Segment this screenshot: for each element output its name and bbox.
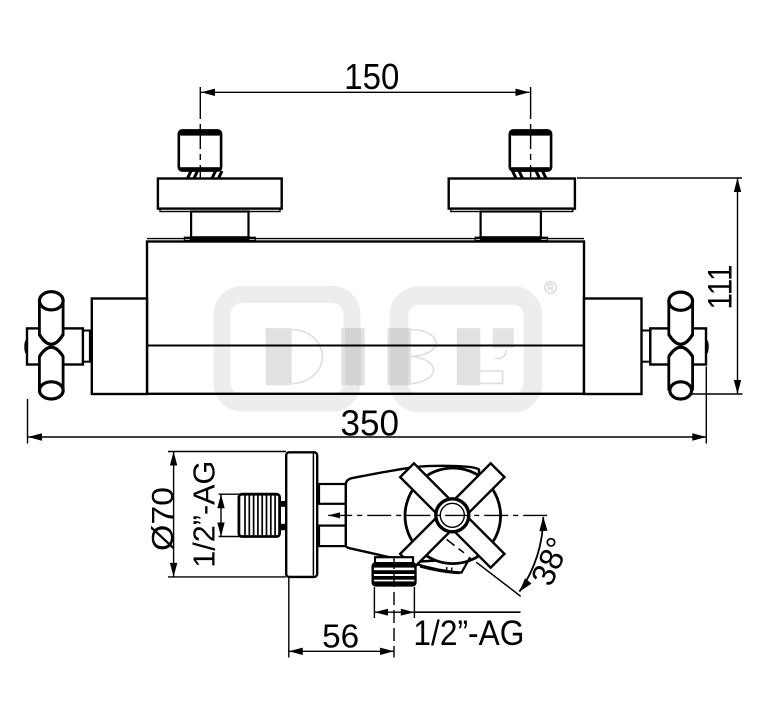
left wall flange lip — [160, 209, 280, 212]
inlet thread top arrow — [217, 494, 224, 508]
spout beak outer curve — [414, 557, 471, 572]
angle 38 top arrow — [539, 517, 547, 532]
watermark letter L bar — [457, 328, 481, 385]
svg-text:150: 150 — [344, 56, 399, 97]
inlet thread bottom arrow — [217, 523, 224, 537]
outlet thread dim left extension — [373, 587, 375, 618]
watermark overlap B-ring2 — [390, 328, 409, 385]
left connector ring — [83, 331, 90, 362]
left handle lower cap arc — [39, 347, 63, 356]
centerline left arrowhead — [328, 512, 340, 518]
dim 350 line — [28, 436, 706, 438]
watermark letter B bowls — [411, 330, 436, 384]
watermark registered mark — [545, 282, 557, 294]
right housing — [584, 299, 642, 395]
svg-text:1/2”-AG: 1/2”-AG — [187, 461, 222, 568]
dim 150 left extension centerline — [199, 87, 201, 178]
svg-text:111: 111 — [702, 265, 740, 310]
dim 111 line — [737, 178, 739, 394]
svg-text:56: 56 — [322, 617, 359, 654]
watermark overlap I-ring1 — [345, 328, 361, 385]
watermark letter D bar — [266, 328, 292, 385]
outlet threaded stack — [373, 563, 416, 585]
outlet thread dim line — [374, 611, 414, 613]
watermark logo DIBL — [222, 282, 556, 403]
left washer — [184, 237, 255, 240]
dia70 dim line — [173, 452, 175, 577]
dia70 bottom extension line — [168, 576, 286, 578]
right handle bottom cylinder — [669, 356, 693, 390]
dim 56 right arrow — [380, 648, 394, 655]
cross handle arm NE-SW — [400, 463, 504, 567]
watermark apostrophe — [495, 350, 506, 359]
svg-text:350: 350 — [341, 402, 400, 443]
right handle cylinder white fill — [669, 301, 693, 390]
left handle cylinder white fill — [39, 301, 63, 391]
inlet nipple thread lines — [245, 496, 275, 536]
dim 350 left extension line — [27, 399, 29, 444]
body mid line — [147, 345, 584, 347]
valve horizontal centerline — [328, 514, 548, 516]
inlet thread dim ticks — [219, 493, 240, 495]
left plate bump — [25, 340, 27, 354]
dim 111 top extension line — [577, 177, 742, 179]
left handle bottom cylinder — [39, 356, 63, 390]
wall flange plate — [286, 452, 317, 577]
connector middle edge — [345, 504, 347, 526]
main body — [147, 242, 584, 394]
dim 56 left extension — [288, 578, 290, 658]
angle 38 arc — [519, 517, 543, 592]
svg-text:1/2”-AG: 1/2”-AG — [413, 613, 524, 653]
outlet thread right arrow — [401, 609, 415, 616]
outlet thread dim right extension — [413, 587, 415, 618]
dia70 top arrow — [170, 452, 177, 466]
spout axis solid segment — [476, 562, 521, 596]
right union nut — [510, 130, 551, 171]
watermark letter D bowl — [292, 330, 323, 384]
valve body — [346, 466, 479, 562]
connector lower block — [319, 526, 346, 547]
right spacer — [481, 212, 541, 238]
hub outer ring — [436, 499, 469, 532]
dim 150 left arrow — [201, 89, 215, 96]
connector upper block — [319, 484, 346, 504]
left spacer — [191, 212, 248, 238]
watermark ring 1 — [222, 295, 352, 404]
dim 111 top arrow — [734, 178, 741, 192]
left washer dark fill — [190, 237, 250, 241]
dim 56 line — [289, 650, 394, 652]
dim 350 right arrow — [692, 433, 706, 440]
left handle upper cap arc — [39, 335, 63, 345]
right end plate — [650, 328, 706, 364]
left end plate — [27, 328, 83, 364]
outlet thread left arrow — [374, 609, 388, 616]
inlet thread dim line — [220, 494, 222, 536]
outlet collar — [375, 557, 413, 563]
watermark ring 2 — [399, 296, 533, 404]
watermark letter L top block — [493, 328, 514, 348]
handle base circle — [405, 468, 501, 564]
right handle top cylinder — [669, 301, 693, 335]
svg-text:Ø70: Ø70 — [145, 487, 180, 551]
right wall flange — [449, 179, 575, 209]
inlet nipple tabs — [280, 501, 287, 507]
dim 56 left arrow — [289, 648, 303, 655]
spout beak inner curve — [420, 567, 460, 574]
right handle lower cap arc — [669, 347, 693, 356]
dia70 top extension line — [168, 451, 286, 453]
dim 111 bottom arrow — [734, 380, 741, 394]
right handle upper cap arc — [669, 335, 693, 345]
body top lip line — [147, 238, 584, 240]
right washer dark fill — [480, 237, 541, 241]
right nut hex feet — [513, 171, 547, 178]
inlet threaded nipple — [239, 494, 280, 536]
left handle top cylinder — [39, 301, 63, 336]
outlet thread leader line — [414, 611, 520, 613]
left housing — [92, 299, 147, 395]
watermark letter I bar — [341, 328, 365, 385]
watermark letter B bar — [387, 328, 411, 385]
dim 150 right extension centerline — [530, 87, 532, 178]
angle 38 bottom arrow — [519, 578, 531, 592]
hub inner ring — [440, 503, 464, 527]
right washer — [475, 237, 547, 240]
outlet vertical centerline — [393, 556, 395, 658]
left wall flange — [158, 179, 282, 209]
dia70 bottom arrow — [170, 563, 177, 577]
dim 150 line — [201, 91, 530, 93]
watermark letter L foot — [480, 371, 502, 383]
dim 111 bottom extension line — [691, 393, 743, 395]
spout beak tick marks — [446, 567, 447, 573]
dim 150 right arrow — [516, 89, 530, 96]
spout axis dash segments — [459, 549, 465, 553]
left nut hex feet — [188, 171, 223, 178]
left union nut — [179, 130, 221, 171]
right wall flange lip — [451, 209, 573, 212]
right plate bump — [706, 340, 708, 354]
dim 350 right extension line — [705, 367, 707, 444]
dim 350 left arrow — [28, 433, 42, 440]
flange plate inner edge — [312, 454, 314, 576]
cross handle arm NW-SE — [400, 463, 504, 567]
right connector ring — [642, 331, 651, 362]
